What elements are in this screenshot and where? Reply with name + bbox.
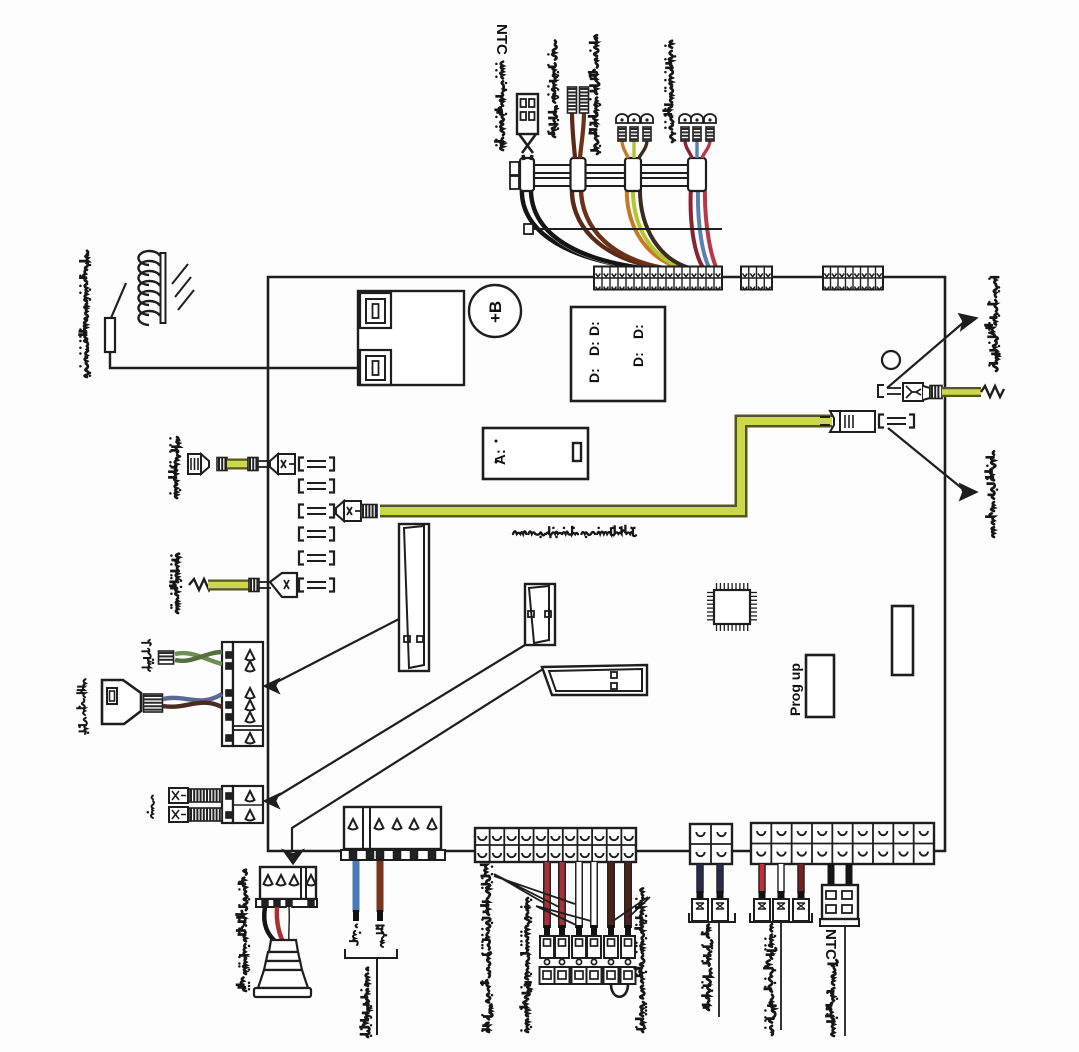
connector fan spade lower [169,807,188,822]
crimp internal earth [361,505,377,518]
wire valve red [277,907,283,942]
wire valve black [264,907,276,942]
pointer lines external sensor [536,906,591,925]
connector earth-body female spade [188,454,209,474]
power block pin rail [341,850,445,860]
label gas valve modulator [547,41,559,137]
spark gap lines [172,264,194,310]
connector external thermostat tabs [540,936,636,984]
Prog up connector [806,655,834,717]
vertical component right [892,606,913,675]
electrode tip wire [111,283,126,318]
connector 3-way valve motor [260,867,316,899]
wire pump green pair [175,653,222,664]
wire stubs modulator to clamp [572,112,575,158]
connector internal earth female spade (right end) [820,411,875,432]
label 3-way valve motor [235,870,250,991]
relay RL1 tall [399,524,429,671]
label earth body [168,437,181,498]
svg-text:D:: D: [586,368,602,383]
earth symbol zigzag right [981,386,1004,397]
wire fan lower [189,808,222,821]
connector power input block [344,807,441,849]
bracket pin earth-pump [299,579,334,592]
wire input earth yellow stub [942,387,981,397]
connector terminal strip low-voltage [475,828,636,862]
svg-text:+B: +B [486,301,505,323]
circle hole right [882,351,900,369]
label NTC (latin part) [493,24,510,55]
label spark electrode [78,251,91,377]
bracket power input [345,949,397,958]
microcontroller IC U1 [707,583,757,631]
bracket pin right earth [879,415,914,428]
wire black pair from NTC DHW sensor [522,186,648,269]
wire electrode to igniter [110,352,358,368]
pointer arrow to board-internal-earth label [888,428,964,490]
wire fan upper [189,789,222,802]
circle +B [469,285,521,337]
bracket limit thermostat [689,913,735,922]
crimp input earth [930,386,942,399]
svg-text:A:: A: [492,449,509,465]
valve motor pin rail [256,899,317,907]
label phase [349,924,361,945]
label earth pump [169,554,182,613]
label board internal earth [513,525,636,539]
label gas valve [76,679,89,734]
connector main board header CN1 [594,267,722,290]
label air pressure switch [763,924,776,1035]
wires air pressure switch [754,864,809,921]
bracket small input earth [878,385,901,397]
relay RL2 [525,584,555,645]
connector block fan [222,786,263,823]
label water pressure switch [662,41,676,142]
wire valve white [286,907,291,942]
valve motor body [254,940,311,997]
bracket pin y486 [299,480,334,493]
crimp earth-body left [217,458,227,471]
label input power earth [984,277,1000,371]
wire stubs NTC connector to clamp [523,155,524,160]
harness rail upper [510,162,706,175]
wire trio from flow switch sensor [627,186,684,269]
connector header CN3 [823,267,883,290]
label limit thermostat [701,925,714,1011]
label board internal earth (right) [984,451,998,537]
connector NTC heating plug [822,885,858,919]
connector NTC DHW sensor plug [517,94,538,153]
earth symbol zigzag (pump earth) [189,579,213,590]
electrode body [105,318,115,352]
wires limit thermostat [692,864,728,921]
label external sensor conn [519,898,532,1032]
label NTC heating latin part [822,929,839,960]
wires NTC heating [828,864,835,888]
wire earth-body yellow [227,459,249,470]
label neutral [375,926,387,948]
svg-text:D:: D: [586,321,602,336]
label fan [147,796,154,818]
relay RL3 horizontal [542,665,647,695]
wire stubs pressure switch to clamp [685,140,692,158]
crimp gas valve [144,694,163,712]
relay block box [571,307,665,401]
wire board internal earth (yellow) [380,421,832,511]
wire earth-pump yellow [208,580,249,591]
jumper loop wire [611,984,628,997]
component box A [483,428,588,479]
crimp earth-body right [248,458,258,471]
label flow switch sensor [588,35,601,154]
connector fan spade upper [169,788,188,803]
pointer lines room thermostat [613,897,650,921]
cable tie bar across harness [524,224,722,234]
connector earth-body male spade on board [270,454,295,474]
terminal modulator crimp pair [568,87,577,113]
crimp earth-pump [249,579,259,592]
wire clamp pressure switch [688,158,706,191]
igniter transformer module [358,291,464,385]
pointer arrow to fan connector [271,645,525,800]
pointer line relay3 to 3way valve arrow [292,669,543,852]
spark electrode coil [138,251,160,325]
harness rail lower [510,176,706,189]
wire clamp modulator [571,158,586,191]
svg-text:NTC: NTC [822,929,839,960]
bracket pin earth-body [299,458,334,471]
connector input earth male spade [903,383,930,401]
connector gas valve plug [102,680,141,724]
label external remote control conn [480,865,493,1032]
svg-text:D:: D: [586,341,602,356]
connector terminal block limit thermostat [690,824,732,864]
pointer arrow to input power earth label [887,322,964,388]
terminal group flow switch ring terminals [616,114,653,141]
svg-text:D:: D: [630,324,646,339]
wire stubs flow sensor to clamp [622,140,628,158]
electrode bar [161,253,166,323]
label input power [359,968,372,1037]
wire gas valve blue-grey [163,694,222,700]
bracket pin y534 [299,528,334,541]
label pump [141,640,154,671]
crimp pump wires [159,651,174,664]
bracket NTC heating [820,918,859,926]
pointer arrow to pump/gas connector [271,619,399,685]
pointer lines remote control [494,874,575,907]
label room thermostat conn [633,888,647,1032]
label NTC heating circuit farsi [825,960,838,1036]
wire gas valve brown [163,703,222,707]
connector earth-pump female spade on board [270,573,297,597]
wires external controls [547,862,628,936]
connector block pump & gas valve [222,642,263,746]
svg-text:D:: D: [630,352,646,367]
wire phase blue [353,861,360,912]
connector internal earth male spade (left end) [336,501,361,521]
PCB board outline [268,277,945,851]
svg-text:NTC: NTC [493,24,510,55]
label NTC DHW circuit (farsi) [494,62,507,150]
wire trio from water pressure switch [691,186,704,269]
connector small header CN2 [741,267,772,290]
bracket pin y558 [299,552,334,565]
bracket air pressure switch [750,913,812,922]
wire clamp flow sensor [625,158,641,191]
wire brown pair from gas valve modulator [572,186,668,269]
terminal group pressure switch ring terminals [679,114,716,141]
connector terminal block sensors [751,823,934,864]
wire neutral brown [377,861,384,912]
bracket pin earth wire [299,505,334,518]
svg-text:Prog up: Prog up [787,663,803,716]
wire clamp NTC [520,158,534,191]
